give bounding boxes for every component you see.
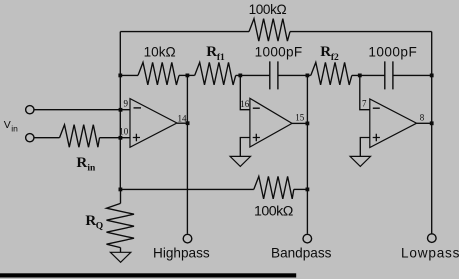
wire: Vin top terminal to op1 inverting input	[34, 109, 130, 111]
resistor R 100k (top feedback)	[249, 19, 290, 41]
wire: op3 output to lowpass bus	[417, 122, 432, 124]
svg-text:Highpass: Highpass	[153, 246, 210, 261]
svg-text:10kΩ: 10kΩ	[144, 44, 176, 59]
svg-text:15: 15	[295, 112, 305, 122]
wire: C1 right plate to bandpass node	[278, 74, 308, 76]
terminal circle Vin bottom	[26, 134, 34, 142]
node: left bus / bottom wire (RQ)	[119, 188, 123, 192]
label Rin	[76, 155, 96, 173]
resistor Rin zigzag	[60, 125, 100, 148]
node: op2 output pin15	[306, 122, 310, 126]
wire: Rf2 to cap C2 left plate	[352, 74, 385, 76]
node: op3 output pin8	[430, 121, 434, 125]
op-amp U1 triangle	[130, 99, 177, 148]
node: left bus / pin10 wire	[119, 136, 123, 140]
wire: Rf1 to cap C1 left plate	[236, 74, 270, 76]
node: left bus / pin9 wire	[119, 108, 123, 112]
capacitor C1 1000pF plates	[270, 61, 278, 89]
terminal circle Highpass	[183, 234, 192, 243]
resistor Rf1 zigzag	[195, 62, 236, 85]
node: highpass bus / row2	[186, 74, 190, 78]
node: op3 inv drop / row2	[358, 74, 362, 78]
node: bandpass bus / row2	[306, 74, 310, 78]
wire: C2 right plate to right bus	[393, 74, 432, 76]
svg-text:1000pF: 1000pF	[368, 45, 417, 60]
resistor RQ vertical zigzag	[107, 203, 135, 247]
svg-text:9: 9	[124, 99, 129, 109]
svg-text:f2: f2	[331, 53, 339, 63]
op-amp U1 plus sign	[133, 134, 140, 141]
svg-text:100kΩ: 100kΩ	[249, 2, 287, 17]
wire: drop to op3 inverting input pin 7	[360, 75, 370, 109]
svg-text:Lowpass: Lowpass	[401, 245, 459, 260]
wire: op2 output to bandpass bus	[292, 122, 307, 124]
terminal circle Bandpass	[303, 234, 312, 243]
node: op2 inv drop / row2	[238, 74, 242, 78]
wire: segment left bus to 10k	[120, 74, 138, 76]
svg-text:8: 8	[420, 112, 425, 122]
wire: RQ stem from bottom wire	[120, 189, 122, 203]
terminal circle Lowpass	[428, 234, 437, 243]
ground symbol (op2)	[230, 156, 250, 166]
wire: Rin to op1 plus input	[100, 137, 131, 139]
node: bandpass bus / bottom wire	[306, 188, 310, 192]
svg-text:f1: f1	[217, 53, 225, 63]
node: right bus / row2	[430, 74, 434, 78]
svg-text:R: R	[76, 155, 87, 171]
wire: drop to op2 inverting input pin 16	[240, 75, 250, 109]
svg-text:100kΩ: 100kΩ	[254, 204, 293, 220]
label Vin	[4, 119, 18, 133]
resistor 10k feedback	[138, 62, 179, 85]
capacitor C2 1000pF plates	[385, 61, 393, 89]
op-amp U3 minus sign	[373, 107, 380, 109]
wire: op2 plus input to ground	[240, 138, 250, 157]
resistor 100k (bottom feedback)	[254, 176, 294, 199]
svg-text:16: 16	[240, 99, 250, 109]
ground symbol (RQ)	[110, 252, 130, 262]
wire: RQ stem to ground	[120, 248, 122, 253]
wire: bandpass vertical (op2 output bus)	[306, 75, 308, 233]
resistor Rf2 zigzag	[311, 62, 352, 85]
op-amp U2 triangle	[250, 98, 292, 147]
black bar (page rule at bottom)	[0, 273, 296, 277]
svg-text:R: R	[320, 44, 331, 60]
svg-text:Q: Q	[96, 221, 103, 231]
svg-text:R: R	[85, 213, 96, 229]
op-amp U1 minus sign	[134, 107, 142, 109]
svg-text:1000pF: 1000pF	[255, 45, 303, 60]
wire: op1 output to highpass bus	[177, 122, 188, 124]
wire: op3 plus input to ground	[360, 138, 370, 157]
node: left bus / 10k row	[118, 74, 122, 78]
wire: top feedback rail right segment	[290, 31, 432, 33]
wire: left vertical bus (inverting input node)	[119, 32, 121, 190]
svg-text:7: 7	[362, 99, 367, 109]
node: op1 output pin14	[186, 121, 190, 125]
svg-text:V: V	[4, 119, 11, 131]
wire: top feedback rail left segment	[120, 31, 249, 33]
svg-text:in: in	[87, 163, 96, 173]
wire: bandpass node to Rf2	[307, 74, 310, 76]
wire: bottom feedback left segment	[120, 188, 254, 190]
op-amp U2 minus sign	[253, 107, 260, 109]
svg-text:14: 14	[178, 114, 188, 124]
wire: right vertical bus (lowpass node)	[431, 32, 433, 234]
wire: highpass vertical (op1 output bus)	[186, 75, 188, 233]
wire: bottom 100k to bandpass bus	[294, 188, 308, 190]
op-amp U3 triangle	[370, 99, 417, 148]
label Rf2	[320, 44, 339, 63]
svg-text:10: 10	[119, 127, 129, 137]
svg-text:Bandpass: Bandpass	[271, 246, 332, 261]
svg-text:in: in	[11, 123, 18, 133]
wire: 10k to highpass node	[179, 74, 195, 76]
svg-text:R: R	[206, 44, 217, 60]
op-amp U3 plus sign	[373, 134, 380, 141]
wire: Vin bottom terminal to Rin	[34, 137, 59, 139]
op-amp U2 plus sign	[253, 134, 260, 141]
label Rf1	[206, 44, 225, 63]
ground symbol (op3)	[350, 156, 370, 166]
label RQ	[85, 213, 103, 231]
terminal circle Vin top	[26, 106, 34, 114]
